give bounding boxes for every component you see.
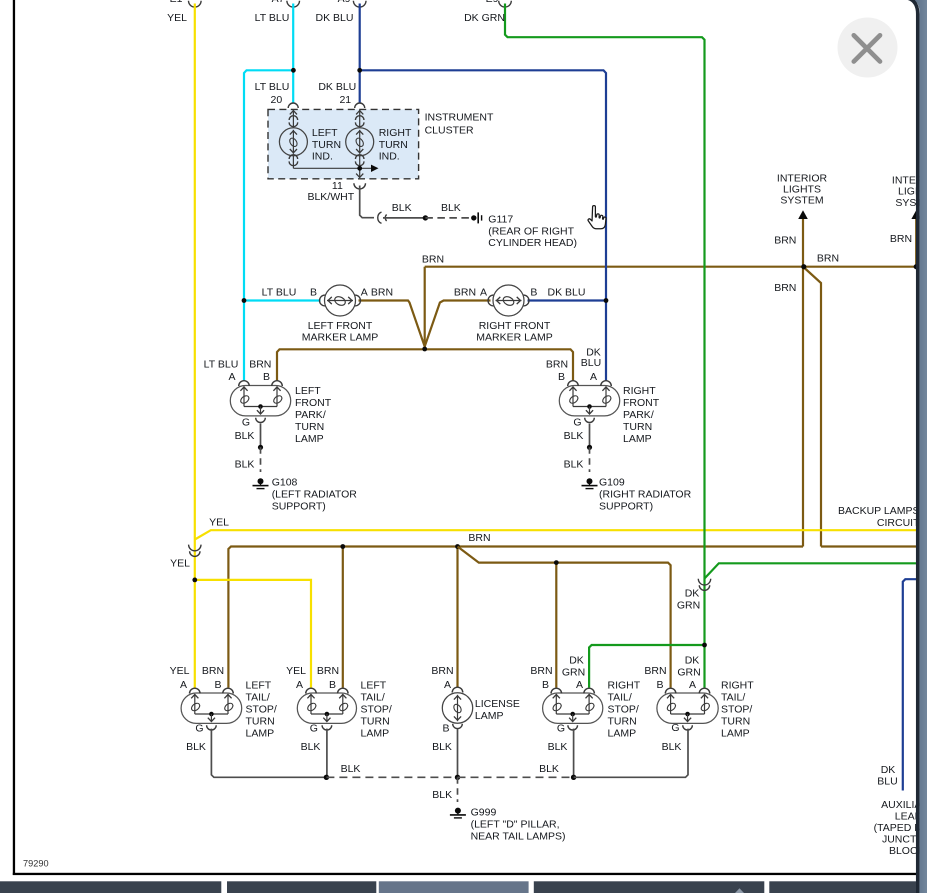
wire BLK right park/turn ground [587, 424, 592, 473]
wire BLK dashed to G117 [425, 217, 471, 219]
svg-text:(RIGHT RADIATOR: (RIGHT RADIATOR [599, 489, 692, 501]
label G BLK right park/turn [564, 417, 584, 471]
svg-text:TURN: TURN [721, 716, 750, 728]
svg-text:TURN: TURN [312, 139, 341, 151]
label DK BLU auxiliary [877, 764, 897, 788]
svg-text:G: G [573, 417, 581, 429]
label A / BRN left marker [361, 286, 393, 298]
node LT BLU junction top [291, 68, 296, 73]
svg-text:STOP/: STOP/ [361, 704, 392, 716]
svg-text:B: B [656, 679, 663, 691]
svg-text:A: A [361, 286, 368, 298]
label DK GRN at inline connector [677, 588, 700, 612]
lamp RIGHT TAIL/STOP/TURN 1 [543, 693, 603, 723]
svg-text:YEL: YEL [170, 558, 190, 570]
svg-text:B: B [542, 679, 549, 691]
wire BLK left park/turn ground [258, 424, 263, 473]
label BRN B left park/turn [249, 358, 271, 383]
svg-text:TURN: TURN [608, 716, 637, 728]
svg-text:FRONT: FRONT [295, 397, 332, 409]
svg-text:BRN: BRN [890, 233, 912, 245]
lamp RIGHT FRONT PARK/TURN [559, 386, 619, 416]
ground G108 [258, 478, 264, 484]
label BRN B right park/turn [546, 358, 568, 383]
svg-text:BLK: BLK [392, 202, 412, 214]
svg-text:BRN: BRN [468, 532, 490, 544]
svg-text:IND.: IND. [312, 151, 333, 163]
label DK BLU 21 [318, 81, 356, 106]
lamp LICENSE [442, 687, 472, 728]
svg-text:A7: A7 [272, 0, 285, 5]
svg-text:BLK: BLK [341, 763, 361, 775]
node DK BLU junction top [357, 68, 362, 73]
label B / DK BLU right marker [530, 286, 585, 298]
label LT BLU A left park/turn [204, 358, 239, 383]
svg-text:BLK/WHT: BLK/WHT [307, 191, 354, 203]
svg-text:G117: G117 [488, 213, 513, 225]
svg-text:TAIL/: TAIL/ [608, 692, 632, 704]
label G999 (LEFT D PILLAR, NEAR TAIL LAMPS) [471, 807, 566, 843]
svg-text:BLU: BLU [877, 776, 897, 788]
wire BRN to right tail lamp 1 [555, 563, 557, 688]
svg-text:A: A [576, 679, 583, 691]
svg-text:LEFT: LEFT [246, 680, 272, 692]
svg-text:TURN: TURN [295, 421, 324, 433]
svg-text:BLU: BLU [581, 357, 601, 369]
svg-text:21: 21 [339, 94, 351, 106]
svg-text:A: A [444, 679, 451, 691]
svg-text:20: 20 [271, 94, 283, 106]
instrument cluster connector pin 20 [288, 103, 298, 108]
svg-text:TAIL/: TAIL/ [721, 692, 745, 704]
node BRN rear bus junction 1 [340, 544, 345, 549]
node BRN lower bus junction [554, 560, 559, 565]
svg-text:YEL: YEL [209, 517, 229, 529]
svg-text:DK: DK [685, 588, 700, 600]
label G108 (LEFT RADIATOR SUPPORT) [272, 477, 358, 513]
wire BRN lower rear bus to right tail lamps [458, 547, 671, 688]
svg-text:BRN: BRN [371, 286, 393, 298]
wire DK BLU from turn signal switch [353, 1, 606, 381]
wire BLK right tail 1 ground [573, 729, 575, 778]
svg-text:DK: DK [881, 764, 896, 776]
label BRN B left tail 1 [202, 665, 224, 691]
svg-text:RIGHT: RIGHT [379, 127, 412, 139]
label BLK rear bus x2 [341, 763, 559, 775]
node DK GRN junction [702, 643, 707, 648]
inline connector on YEL wire [189, 545, 201, 557]
svg-text:BRN: BRN [422, 254, 444, 266]
label DK BLU A right park/turn [581, 347, 601, 384]
svg-text:YEL: YEL [286, 665, 306, 677]
label LEFT FRONT PARK/TURN LAMP [295, 385, 332, 445]
label LT BLU 20 [255, 81, 290, 106]
svg-text:RIGHT: RIGHT [721, 680, 754, 692]
svg-text:G: G [671, 722, 679, 734]
svg-text:BLK: BLK [564, 458, 584, 470]
interior lights system arrow (right edge) [911, 210, 921, 266]
label BRN B left tail 2 [317, 665, 339, 691]
label RIGHT TAIL/STOP/TURN LAMP 1 [608, 680, 641, 740]
label LEFT FRONT MARKER LAMP [302, 320, 378, 344]
label DK GRN right tail 1 [562, 655, 585, 679]
cluster pin 11 connector [354, 183, 366, 189]
svg-text:DK BLU: DK BLU [318, 81, 356, 93]
svg-text:BLK: BLK [432, 789, 452, 801]
instrument cluster connector pin 21 [355, 103, 365, 108]
wire BLK dashed bus to license [326, 776, 457, 778]
svg-text:BLK: BLK [235, 458, 255, 470]
inline connector on BLK wire [378, 212, 387, 223]
label DK GRN below junction [677, 655, 700, 679]
svg-text:TURN: TURN [623, 421, 652, 433]
label INTERIOR LIGHTS SYSTEM (left) [777, 173, 828, 207]
label RIGHT TURN IND. [379, 127, 412, 163]
label INSTRUMENT CLUSTER [425, 111, 494, 136]
svg-text:LT BLU: LT BLU [204, 358, 239, 370]
svg-text:RIGHT FRONT: RIGHT FRONT [479, 320, 551, 332]
node BLK splice [423, 215, 428, 220]
wire BRN to left front park/turn lamp [277, 349, 425, 380]
label LEFT TAIL/STOP/TURN LAMP 2 [361, 680, 392, 740]
wire BRN main bus to interior lights [425, 267, 917, 349]
svg-text:DK BLU: DK BLU [316, 12, 354, 24]
lamp LEFT TAIL/STOP/TURN 2 [297, 693, 356, 723]
svg-text:SUPPORT): SUPPORT) [272, 501, 326, 513]
svg-text:GRN: GRN [677, 667, 700, 679]
svg-text:B: B [214, 679, 221, 691]
svg-text:BLK: BLK [186, 741, 206, 753]
lamp RIGHT FRONT MARKER [493, 285, 524, 316]
svg-text:INSTRUMENT: INSTRUMENT [425, 111, 494, 123]
svg-text:G: G [557, 723, 565, 735]
label G117 (REAR OF RIGHT CYLINDER HEAD) [488, 213, 577, 249]
svg-text:LEFT: LEFT [295, 385, 321, 397]
svg-text:GRN: GRN [562, 667, 585, 679]
svg-text:A: A [590, 371, 597, 383]
svg-text:LEFT: LEFT [361, 680, 387, 692]
label BRN B right tail 1 [530, 665, 552, 691]
inline connector on DK GRN wire [698, 579, 710, 591]
label BLK x2 near G117 [392, 202, 461, 214]
label LT BLU / B left marker [262, 286, 317, 298]
svg-text:BRN: BRN [431, 665, 453, 677]
label BRN / A right marker [454, 286, 487, 298]
svg-text:A: A [296, 679, 303, 691]
svg-text:TAIL/: TAIL/ [246, 692, 270, 704]
svg-text:G: G [242, 417, 250, 429]
label BRN near interior junction x3 [774, 234, 839, 294]
label BACKUP LAMPS CIRCUIT [838, 505, 920, 529]
svg-text:STOP/: STOP/ [608, 704, 639, 716]
svg-text:LAMP: LAMP [361, 728, 390, 740]
label G109 (RIGHT RADIATOR SUPPORT) [599, 477, 692, 513]
interior lights system arrow (left) [798, 210, 808, 266]
wire BLK to splice [383, 217, 425, 219]
ground G999 [455, 808, 461, 814]
lamp LEFT TURN IND [279, 110, 307, 169]
svg-text:CLUSTER: CLUSTER [425, 124, 474, 136]
partial connector pin letters at top edge [170, 0, 499, 5]
wire BLK dashed down to G999 [457, 777, 459, 802]
svg-text:E1: E1 [170, 0, 183, 5]
wire BLK/WHT from cluster pin 11 [360, 186, 374, 218]
svg-text:BRN: BRN [249, 358, 271, 370]
svg-text:RIGHT: RIGHT [623, 385, 656, 397]
label YEL A left tail 2 [286, 665, 306, 691]
svg-text:BLK: BLK [548, 741, 568, 753]
svg-text:79290: 79290 [23, 859, 49, 869]
svg-text:PARK/: PARK/ [623, 409, 654, 421]
node BLK rear splice 3 [571, 775, 576, 780]
svg-text:DK GRN: DK GRN [464, 12, 505, 24]
svg-text:LT BLU: LT BLU [255, 12, 290, 24]
label pin 11 BLK/WHT [307, 180, 354, 203]
svg-text:BRN: BRN [644, 665, 666, 677]
node BLK rear splice 2 [455, 775, 460, 780]
node BRN interior junction [801, 264, 806, 269]
wire DK BLU auxiliary lead [903, 579, 917, 790]
svg-text:BRN: BRN [454, 286, 476, 298]
ground G117 [471, 212, 482, 223]
svg-text:CYLINDER HEAD): CYLINDER HEAD) [488, 237, 577, 249]
svg-text:MARKER LAMP: MARKER LAMP [476, 332, 552, 344]
svg-text:BLK: BLK [235, 430, 255, 442]
svg-text:B: B [442, 723, 449, 735]
node BRN marker junction [422, 347, 427, 352]
wire DK GRN from backup lamp switch [499, 1, 705, 688]
node YEL junction [192, 578, 197, 583]
label INTERIOR LIGHTS SYSTEM (right, clipped) [892, 175, 927, 210]
svg-text:BLK: BLK [441, 202, 461, 214]
label BRN A license [431, 665, 453, 691]
svg-text:LEFT: LEFT [312, 127, 338, 139]
svg-text:BRN: BRN [317, 665, 339, 677]
svg-text:G109: G109 [599, 477, 625, 489]
wire BRN to right front park/turn lamp [425, 349, 573, 380]
svg-text:TURN: TURN [246, 716, 275, 728]
mouse hand cursor [588, 206, 606, 229]
label YEL A left tail 1 [170, 665, 190, 691]
wire BRN to left front marker lamp [359, 301, 425, 350]
svg-text:DK BLU: DK BLU [548, 286, 586, 298]
svg-text:(REAR OF RIGHT: (REAR OF RIGHT [488, 225, 574, 237]
svg-text:BRN: BRN [546, 358, 568, 370]
lamp RIGHT TURN IND [346, 110, 374, 169]
wire BRN rear bus [228, 547, 916, 688]
cluster common wire with arrow [293, 165, 378, 178]
wire LT BLU from turn signal switch [244, 1, 321, 381]
wire YEL to left tail lamps [195, 580, 311, 688]
svg-text:TAIL/: TAIL/ [361, 692, 385, 704]
svg-text:LAMP: LAMP [246, 728, 275, 740]
svg-text:LT BLU: LT BLU [262, 286, 297, 298]
svg-text:STOP/: STOP/ [246, 704, 277, 716]
svg-text:BRN: BRN [774, 282, 796, 294]
lamp LEFT FRONT MARKER [325, 285, 356, 316]
svg-text:LT BLU: LT BLU [255, 81, 290, 93]
lamp RIGHT TAIL/STOP/TURN 2 [657, 693, 718, 723]
label LEFT TURN IND. [312, 127, 341, 163]
svg-text:TURN: TURN [361, 716, 390, 728]
svg-text:A: A [689, 679, 696, 691]
svg-text:(LEFT RADIATOR: (LEFT RADIATOR [272, 489, 358, 501]
label RIGHT TAIL/STOP/TURN LAMP 2 [721, 680, 754, 740]
label RIGHT FRONT PARK/TURN LAMP [623, 385, 660, 445]
svg-text:LAMP: LAMP [721, 728, 750, 740]
label LICENSE LAMP [475, 698, 520, 722]
svg-text:B: B [310, 286, 317, 298]
wire BLK license lamp ground [457, 729, 459, 778]
svg-text:PARK/: PARK/ [295, 409, 326, 421]
wire DK GRN from backup lamps circuit (right) [705, 563, 917, 578]
svg-text:B: B [558, 371, 565, 383]
svg-text:B: B [263, 371, 270, 383]
svg-text:BLK: BLK [301, 741, 321, 753]
svg-text:BLK: BLK [432, 741, 452, 753]
lamp LEFT FRONT PARK/TURN [230, 386, 290, 416]
wire BLK right tail 2 ground [574, 729, 688, 778]
svg-text:LAMP: LAMP [608, 728, 637, 740]
instrument cluster box [268, 109, 419, 178]
node DK BLU junction marker [604, 298, 609, 303]
label AUXILIARY LEAD (clipped) [874, 799, 927, 857]
svg-text:SUPPORT): SUPPORT) [599, 501, 653, 513]
node BRN rear bus junction 2 [455, 544, 460, 549]
svg-text:DK: DK [569, 655, 584, 667]
svg-text:B: B [329, 679, 336, 691]
svg-text:G: G [195, 723, 203, 735]
svg-text:LAMP: LAMP [475, 710, 504, 722]
svg-text:YEL: YEL [167, 12, 187, 24]
svg-text:A9: A9 [338, 0, 351, 5]
wire BRN to license lamp [456, 547, 458, 688]
label RIGHT FRONT MARKER LAMP [476, 320, 552, 344]
svg-text:STOP/: STOP/ [721, 704, 752, 716]
svg-text:(LEFT "D" PILLAR,: (LEFT "D" PILLAR, [471, 819, 560, 831]
svg-text:BRN: BRN [774, 234, 796, 246]
svg-text:BACKUP LAMPS: BACKUP LAMPS [838, 505, 920, 517]
label G BLK left park/turn [235, 417, 255, 471]
svg-text:BRN: BRN [530, 665, 552, 677]
svg-text:TURN: TURN [379, 139, 408, 151]
label LEFT TAIL/STOP/TURN LAMP 1 [246, 680, 277, 740]
node LT BLU junction marker [242, 298, 247, 303]
svg-text:BLK: BLK [539, 763, 559, 775]
node BLK rear splice 1 [324, 775, 329, 780]
svg-text:BLK: BLK [662, 741, 682, 753]
svg-text:A: A [480, 286, 487, 298]
svg-text:YEL: YEL [170, 665, 190, 677]
svg-text:BRN: BRN [817, 252, 839, 264]
node cluster common junction [357, 166, 362, 171]
svg-text:GRN: GRN [677, 600, 700, 612]
svg-text:RIGHT: RIGHT [608, 680, 641, 692]
wire BLK left tail 1 ground [211, 729, 325, 778]
svg-text:E9: E9 [486, 0, 499, 5]
svg-text:A: A [180, 679, 187, 691]
wire BLK dashed bus to right tails [458, 776, 574, 778]
wire BLK left tail 2 ground [326, 729, 328, 778]
lamp LEFT TAIL/STOP/TURN 1 [181, 693, 242, 723]
svg-text:G: G [310, 723, 318, 735]
svg-text:LAMP: LAMP [295, 433, 324, 445]
wire DK GRN branch to right tail lamp 1 [589, 645, 704, 688]
svg-text:G999: G999 [471, 807, 497, 819]
close button [838, 18, 898, 78]
wire BRN to left tail lamp 2 [342, 547, 344, 688]
svg-text:BLK: BLK [564, 430, 584, 442]
wire BRN interior lights branch down [803, 267, 821, 547]
svg-text:BRN: BRN [202, 665, 224, 677]
ground G109 [587, 478, 593, 484]
svg-text:FRONT: FRONT [623, 397, 660, 409]
svg-text:LICENSE: LICENSE [475, 698, 520, 710]
svg-text:LAMP: LAMP [623, 433, 652, 445]
svg-text:MARKER LAMP: MARKER LAMP [302, 332, 378, 344]
wire BRN to right front marker lamp [425, 301, 491, 350]
svg-text:LEFT FRONT: LEFT FRONT [308, 320, 373, 332]
label BRN B right tail 2 [644, 665, 666, 691]
node BRN right edge junction [914, 264, 919, 269]
label G and BLK rear lamps [186, 722, 681, 753]
svg-text:G108: G108 [272, 477, 298, 489]
svg-text:DK: DK [685, 655, 700, 667]
svg-text:A: A [228, 371, 235, 383]
svg-text:IND.: IND. [379, 151, 400, 163]
svg-text:B: B [530, 286, 537, 298]
wire YEL from fuse (top connector) down left side [189, 1, 917, 580]
svg-text:NEAR TAIL LAMPS): NEAR TAIL LAMPS) [471, 831, 566, 843]
svg-text:CIRCUIT: CIRCUIT [877, 517, 920, 529]
svg-text:SYSTEM: SYSTEM [780, 195, 823, 207]
